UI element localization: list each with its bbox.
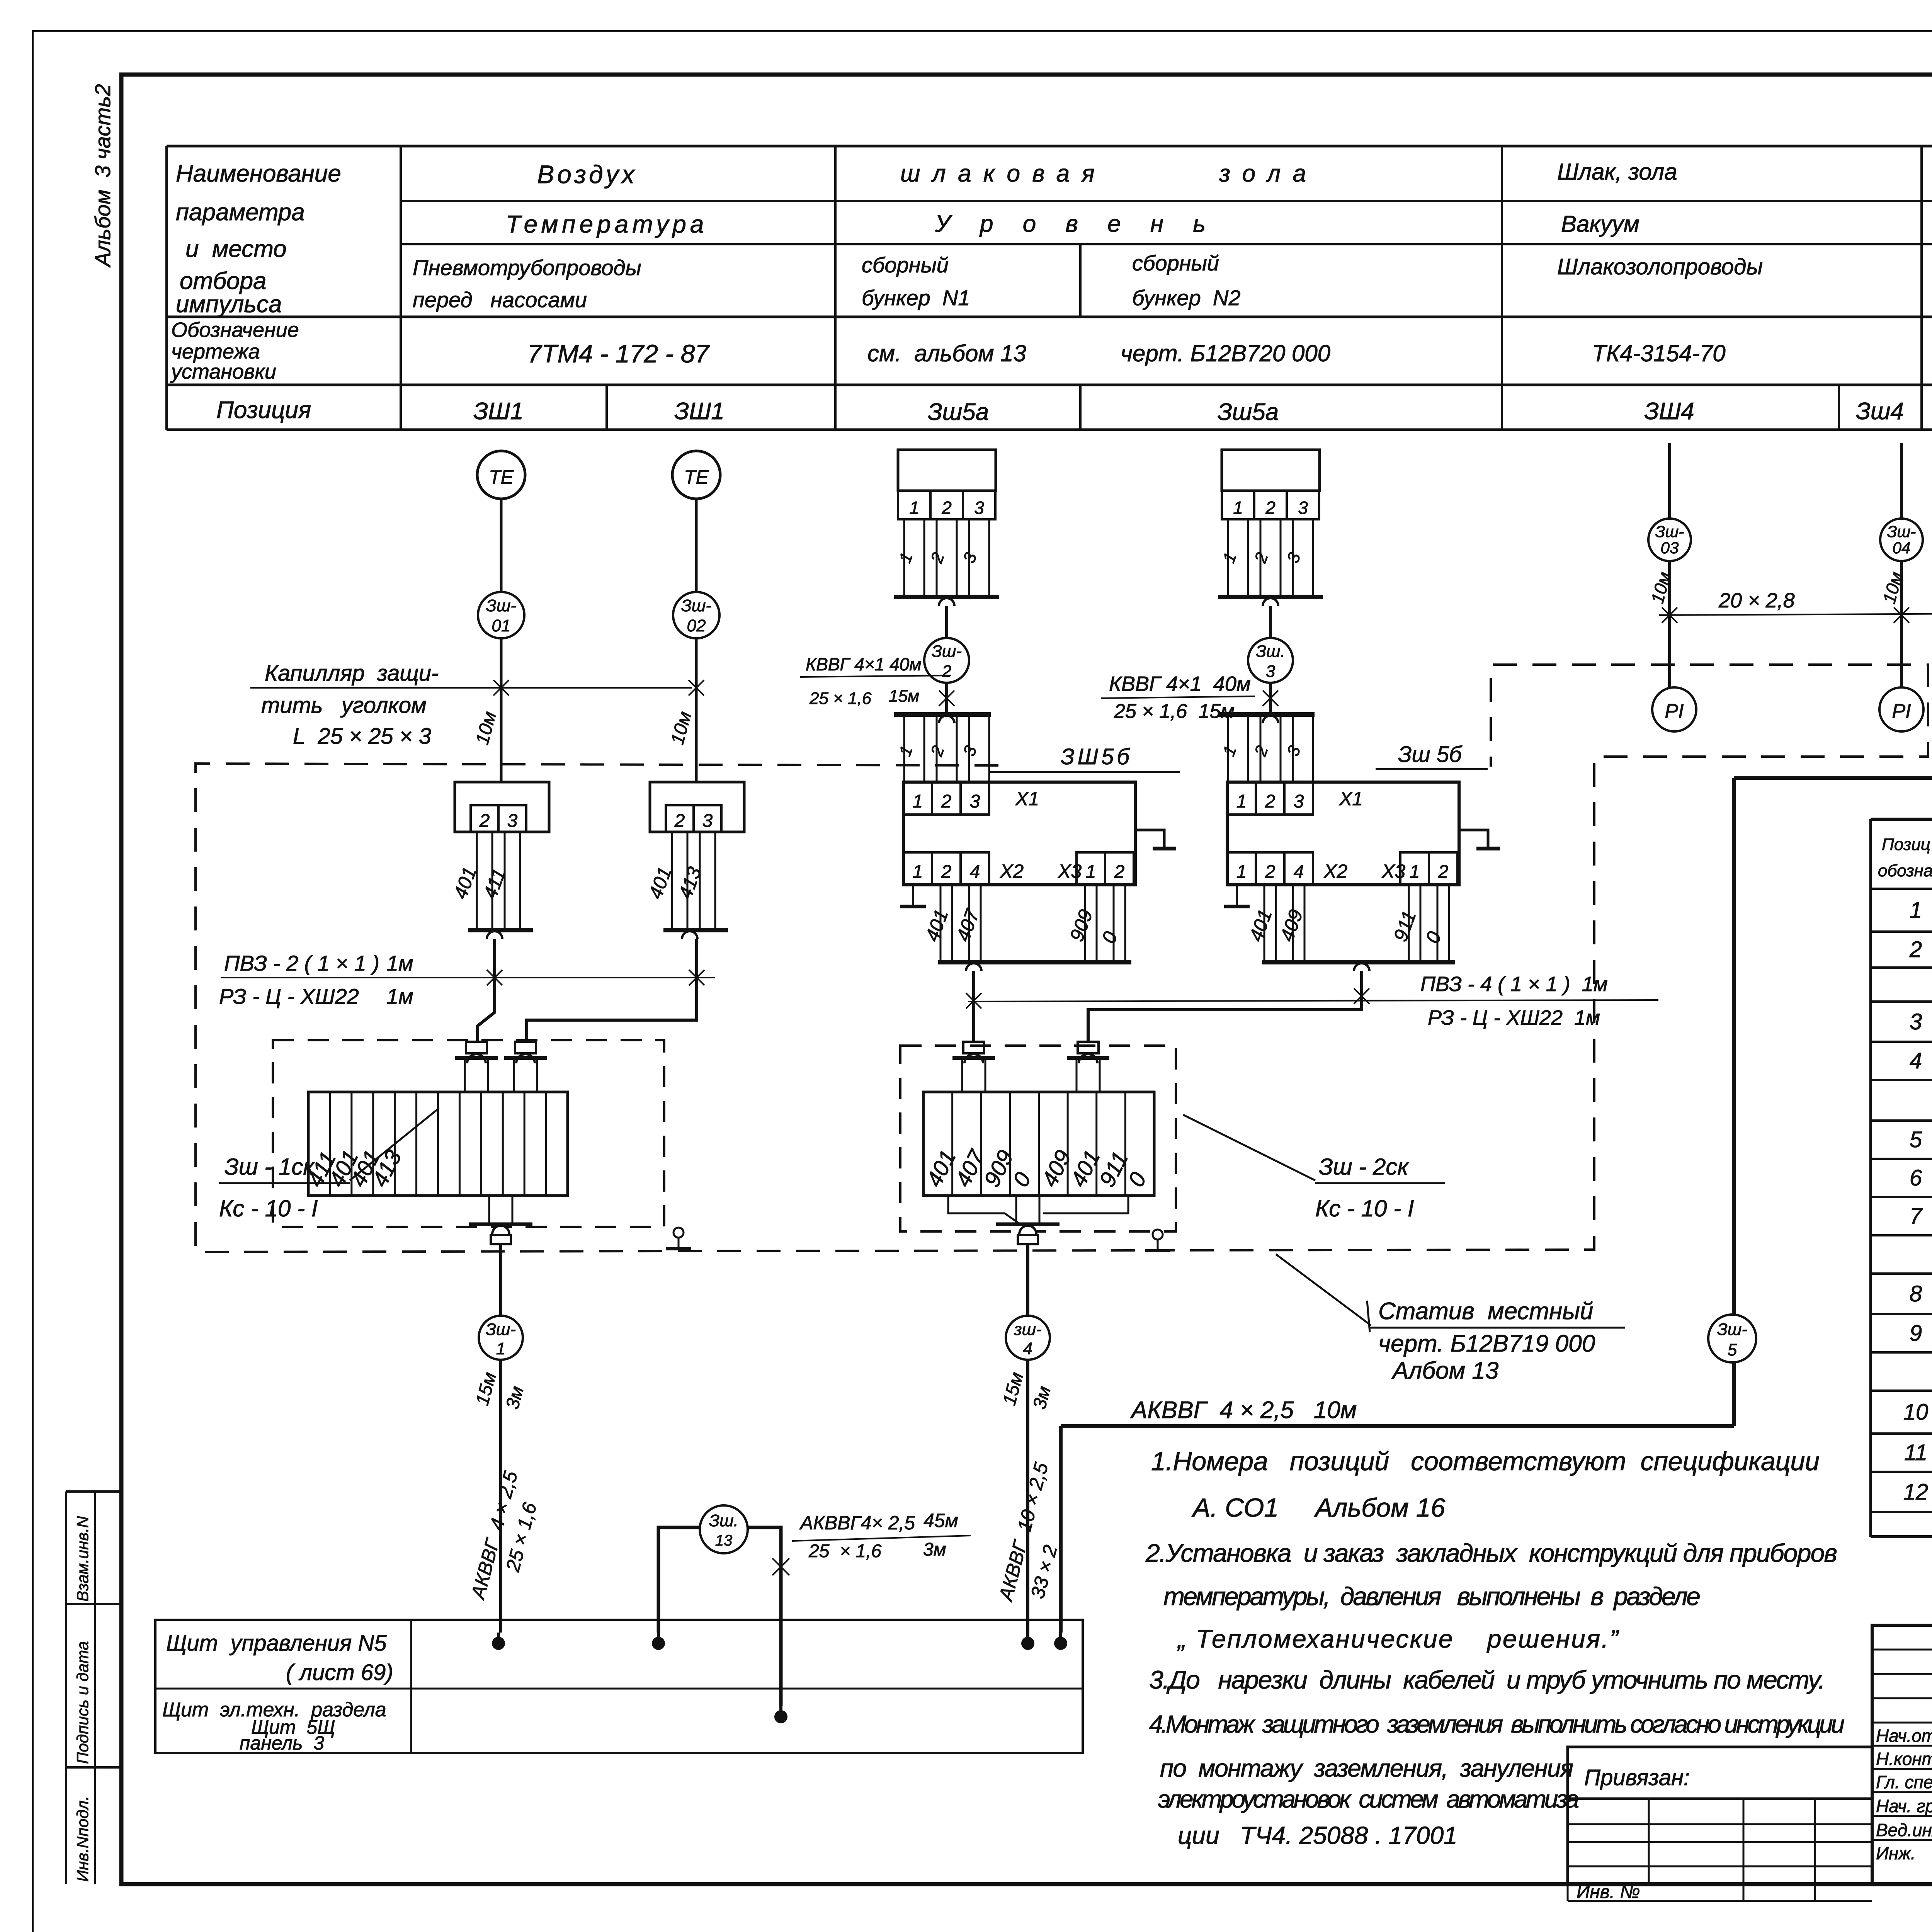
bell upper xyxy=(1263,598,1278,606)
dashed boundary of local stand xyxy=(196,665,1928,1252)
wire left X1 to ZSh-2sk stub xyxy=(972,971,975,1042)
svg-text:Взам.инв.N: Взам.инв.N xyxy=(73,1516,92,1602)
svg-text:2: 2 xyxy=(1438,862,1449,882)
ground symbol of ZSh-2sk xyxy=(1153,1230,1163,1240)
leader ZSh-1sk xyxy=(350,1108,439,1180)
svg-text:9: 9 xyxy=(1910,1321,1922,1346)
svg-text:L 25 × 25 × 3: L 25 × 25 × 3 xyxy=(293,724,431,749)
bottom bell xyxy=(492,1226,509,1234)
line to PI xyxy=(1900,561,1903,688)
svg-text:3: 3 xyxy=(702,811,713,831)
bell lower xyxy=(1263,716,1278,723)
svg-text:ЗШ1: ЗШ1 xyxy=(674,398,724,425)
ground symbol right of X1 xyxy=(1135,830,1164,847)
wire AKVVG down to panel xyxy=(1059,1426,1063,1633)
svg-text:Наименование: Наименование xyxy=(176,160,341,187)
svg-text:Зш 5б: Зш 5б xyxy=(1398,742,1463,767)
svg-text:Зш-: Зш- xyxy=(1717,1320,1747,1339)
svg-text:5: 5 xyxy=(1910,1127,1922,1152)
wire from device to panel partition xyxy=(1734,561,1932,778)
svg-text:температуры, давления выпол: температуры, давления выполнены в раздел… xyxy=(1163,1582,1701,1611)
svg-text:и место: и место xyxy=(185,236,287,262)
svg-text:чертежа: чертежа xyxy=(171,340,260,363)
svg-text:25 × 1,6: 25 × 1,6 xyxy=(808,1541,881,1561)
wire AKVVG horizontal xyxy=(1061,1424,1734,1428)
cable marker circle xyxy=(1880,519,1923,561)
svg-text:7: 7 xyxy=(1910,1204,1923,1229)
svg-text:Зш-: Зш- xyxy=(1887,522,1916,541)
cable gland bolt xyxy=(1078,1042,1099,1053)
svg-text:02: 02 xyxy=(687,616,706,635)
svg-text:Зш-: Зш- xyxy=(681,596,711,615)
ground symbol right of X1 xyxy=(1459,830,1488,847)
svg-text:4: 4 xyxy=(1023,1339,1032,1358)
svg-text:Температура: Температура xyxy=(506,210,708,238)
svg-text:7ТМ4 - 172 - 87: 7ТМ4 - 172 - 87 xyxy=(527,339,710,368)
wire above PI1 xyxy=(1673,687,1675,688)
svg-text:Зш - 1ск: Зш - 1ск xyxy=(224,1154,315,1180)
svg-text:2: 2 xyxy=(1114,862,1125,882)
cable marker ZSh-13 xyxy=(700,1505,748,1553)
svg-text:Зш.: Зш. xyxy=(1256,642,1285,661)
svg-text:1: 1 xyxy=(496,1339,505,1358)
svg-text:Шлакозолопроводы: Шлакозолопроводы xyxy=(1557,254,1763,279)
svg-text:1: 1 xyxy=(1086,862,1096,882)
svg-text:3: 3 xyxy=(1910,1009,1922,1034)
svg-text:ЗШ1: ЗШ1 xyxy=(473,398,524,425)
ground stub cell1 xyxy=(1236,885,1238,905)
cable marker circle xyxy=(924,638,969,683)
svg-text:бункер N2: бункер N2 xyxy=(1132,286,1241,310)
svg-text:Х1: Х1 xyxy=(1339,788,1363,810)
wire pair from strip xyxy=(1015,1196,1017,1224)
connection dot AKVVG main xyxy=(1054,1637,1067,1650)
wire below marker xyxy=(1269,683,1272,714)
X1 top cells 1 2 3 xyxy=(1227,782,1256,815)
svg-text:АКВВГ 4 × 2,5 10м: АКВВГ 4 × 2,5 10м xyxy=(1130,1397,1357,1423)
terminal box xyxy=(650,782,744,832)
svg-text:сборный: сборный xyxy=(862,253,949,277)
svg-text:1м: 1м xyxy=(386,951,413,975)
svg-text:Зш - 2ск: Зш - 2ск xyxy=(1319,1154,1409,1180)
svg-text:Х2: Х2 xyxy=(1000,861,1024,882)
svg-text:12: 12 xyxy=(1903,1480,1929,1505)
wires from terminals to bus xyxy=(476,832,478,930)
svg-text:2: 2 xyxy=(1909,937,1922,962)
svg-text:3: 3 xyxy=(1266,662,1276,681)
title block signature table xyxy=(1872,1625,1932,1884)
svg-text:15м: 15м xyxy=(889,687,919,706)
svg-text:8: 8 xyxy=(1910,1281,1922,1306)
crossing mark on cable note xyxy=(939,690,954,706)
svg-text:Зш4: Зш4 xyxy=(1856,398,1904,425)
impulse line top xyxy=(1668,443,1671,520)
svg-text:1: 1 xyxy=(913,862,923,882)
svg-text:3: 3 xyxy=(970,791,980,812)
gland bar xyxy=(1067,1056,1109,1060)
X1 top cells 1 2 3 xyxy=(903,782,932,815)
svg-text:2: 2 xyxy=(941,498,952,518)
impulse line top xyxy=(1900,443,1903,520)
inv no row xyxy=(1567,1884,1569,1901)
svg-text:03: 03 xyxy=(1661,539,1679,557)
ground symbol of ZSh-1sk xyxy=(673,1228,684,1238)
svg-text:1: 1 xyxy=(909,498,919,518)
svg-text:отбора: отбора xyxy=(180,268,266,294)
line to PI xyxy=(1668,561,1671,688)
svg-text:обознач.: обознач. xyxy=(1878,861,1932,880)
cable note line PV3-2 xyxy=(221,977,715,978)
bus bar upper xyxy=(1218,595,1323,599)
svg-text:бункер N1: бункер N1 xyxy=(862,286,970,310)
crossing mark PV3-2 line wire1 xyxy=(487,970,502,985)
svg-text:ЗШ5б: ЗШ5б xyxy=(1061,744,1133,769)
crossing mark PV3-4 wire2 xyxy=(1354,988,1369,1004)
svg-text:Зш5а: Зш5а xyxy=(928,399,989,425)
svg-text:Позиц .: Позиц . xyxy=(1882,835,1932,854)
svg-text:ПВЗ - 2 ( 1 × 1 ): ПВЗ - 2 ( 1 × 1 ) xyxy=(224,951,379,975)
svg-text:3: 3 xyxy=(1294,791,1304,812)
wire to cable marker xyxy=(945,606,948,638)
wire ZSh-1 to panel xyxy=(499,1360,502,1633)
svg-text:Вед.инж: Вед.инж xyxy=(1876,1820,1932,1840)
connection dot ZSh-4 xyxy=(1021,1637,1034,1650)
bell upper xyxy=(939,598,954,606)
svg-text:Х3: Х3 xyxy=(1058,861,1082,882)
wire pair into strip xyxy=(961,1058,963,1092)
svg-text:1: 1 xyxy=(913,791,923,812)
wire ZSh-02 down to terminal box xyxy=(695,638,698,782)
svg-text:5: 5 xyxy=(1728,1340,1737,1359)
wire from box1 to junction box KS-10-I stub1 xyxy=(478,939,495,1042)
svg-text:„ Тепломеханические решения: „ Тепломеханические решения.” xyxy=(1177,1624,1619,1653)
manometer PI 1 xyxy=(1652,687,1696,731)
svg-text:1: 1 xyxy=(1910,898,1922,923)
connector bell xyxy=(682,931,697,939)
crossing mark 20x2.8 xyxy=(1662,607,1677,623)
upper connection box xyxy=(1222,450,1320,491)
cable marker circle xyxy=(1248,638,1293,683)
wire TE1 to ZSh-01 xyxy=(500,499,503,592)
svg-text:тить уголком: тить уголком xyxy=(261,693,427,718)
svg-text:1: 1 xyxy=(1236,862,1247,882)
svg-text:2: 2 xyxy=(941,862,952,882)
wire from box2 to junction box KS-10-I stub2 xyxy=(527,939,697,1042)
wires cells 2 4 to bus xyxy=(940,885,942,962)
connection dot ZSh-13 left xyxy=(652,1637,665,1650)
svg-text:электроустановок систем авто: электроустановок систем автоматиза xyxy=(1158,1785,1579,1813)
svg-text:Подпись и дата: Подпись и дата xyxy=(73,1641,92,1764)
cable marker ZSh-02 xyxy=(673,592,719,638)
gland bell xyxy=(964,1054,983,1063)
svg-text:Шлак, зола: Шлак, зола xyxy=(1557,159,1677,185)
wire pair into strip xyxy=(513,1058,515,1092)
svg-text:см. альбом 13: см. альбом 13 xyxy=(867,340,1026,366)
svg-text:Привязан:: Привязан: xyxy=(1584,1765,1690,1790)
leader ZSh-2sk xyxy=(1183,1115,1315,1180)
cable note line KVVG left xyxy=(800,675,951,677)
wire pair from strip xyxy=(488,1196,490,1224)
crossing mark PV3-4 wire1 xyxy=(966,993,981,1009)
wires into X1 xyxy=(1227,714,1229,782)
svg-text:2: 2 xyxy=(942,662,951,681)
svg-text:Инв.Nподл.: Инв.Nподл. xyxy=(73,1796,92,1882)
manometer PI 2 xyxy=(1879,687,1923,731)
cable marker ZSh-1 xyxy=(479,1316,523,1360)
wire right X1 to ZSh-2sk stub xyxy=(1088,971,1362,1042)
svg-text:Зш5а: Зш5а xyxy=(1218,399,1279,425)
dashed box around ZSh-1sk xyxy=(273,1040,664,1227)
svg-text:Х1: Х1 xyxy=(1015,788,1039,810)
parts table frame xyxy=(1871,818,1932,821)
wire below marker xyxy=(945,683,948,714)
svg-text:3м: 3м xyxy=(923,1539,946,1560)
svg-text:2: 2 xyxy=(941,791,952,812)
net label line ZSh5b left xyxy=(989,771,1180,773)
control panel box xyxy=(155,1620,1083,1753)
cable marker ZSh-01 xyxy=(478,592,524,638)
bell under left X1 xyxy=(966,963,981,971)
svg-text:3: 3 xyxy=(507,811,518,831)
instrument TE circle 2 xyxy=(672,451,720,499)
terminal block X1 body xyxy=(1227,782,1459,885)
svg-text:Нач.отд: Нач.отд xyxy=(1876,1726,1932,1746)
bus bar lower xyxy=(894,712,991,717)
svg-text:установки: установки xyxy=(170,360,276,383)
crossing mark on capillary note line 2 xyxy=(689,680,704,696)
bottom bolt xyxy=(1018,1235,1038,1244)
svg-text:сборный: сборный xyxy=(1132,251,1219,275)
svg-text:4: 4 xyxy=(970,862,980,882)
sidebar stamp boxes xyxy=(65,1492,67,1884)
cable gland bolt xyxy=(515,1042,536,1053)
wire ZSh-4 branch xyxy=(1026,1244,1029,1316)
svg-text:Х3: Х3 xyxy=(1381,861,1405,882)
svg-text:25 × 1,6: 25 × 1,6 xyxy=(809,689,872,708)
svg-text:Гл. спец: Гл. спец xyxy=(1876,1772,1932,1792)
svg-text:РI: РI xyxy=(1665,700,1684,723)
bottom gland bar xyxy=(469,1223,532,1226)
X3 cells 1 2 xyxy=(1400,852,1429,885)
svg-text:2.Установка и заказ закладны: 2.Установка и заказ закладных конструкци… xyxy=(1145,1539,1837,1567)
svg-text:1: 1 xyxy=(1236,791,1247,812)
wires to bus xyxy=(1227,519,1229,597)
gland bell xyxy=(516,1054,535,1063)
leader stativ xyxy=(1367,1301,1370,1332)
svg-text:Зш-: Зш- xyxy=(1655,522,1684,541)
svg-text:РI: РI xyxy=(1892,700,1911,723)
svg-text:Щит управления N5: Щит управления N5 xyxy=(166,1631,387,1656)
svg-text:Нач. гр.: Нач. гр. xyxy=(1876,1796,1932,1816)
crossing mark on ZSh-13 branch xyxy=(772,1558,789,1575)
X3 cells 1 2 xyxy=(1077,852,1105,885)
internal wiring under strip xyxy=(948,1196,1020,1224)
bus bar under X1 xyxy=(1262,960,1455,964)
svg-text:АКВВГ4× 2,5: АКВВГ4× 2,5 xyxy=(799,1512,915,1534)
svg-text:20 × 2,8: 20 × 2,8 xyxy=(1718,589,1795,612)
wires from terminals to bus xyxy=(671,832,673,930)
svg-text:Зш-: Зш- xyxy=(486,596,516,615)
svg-text:РЗ - Ц - ХШ22 1м: РЗ - Ц - ХШ22 1м xyxy=(1428,1006,1600,1029)
svg-text:Инв. №: Инв. № xyxy=(1577,1882,1640,1902)
svg-text:ТЕ: ТЕ xyxy=(684,466,709,488)
X2 bottom cells 1 2 4 xyxy=(903,852,932,885)
cable marker circle xyxy=(1648,519,1691,561)
svg-text:Зш-: Зш- xyxy=(486,1320,516,1339)
crossing mark on capillary note line xyxy=(493,680,509,696)
svg-text:Капилляр защи-: Капилляр защи- xyxy=(265,661,439,686)
svg-text:Воздух: Воздух xyxy=(537,160,638,189)
svg-text:Албом 13: Албом 13 xyxy=(1391,1357,1498,1384)
svg-text:Вакуум: Вакуум xyxy=(1561,211,1639,237)
svg-text:по монтажу заземления, зану: по монтажу заземления, зануления xyxy=(1160,1754,1573,1782)
svg-text:ТК4-3154-70: ТК4-3154-70 xyxy=(1592,340,1726,366)
wire below ZSh-5 xyxy=(1732,1362,1736,1426)
gland bell xyxy=(1079,1054,1097,1063)
svg-text:РЗ - Ц - ХШ22: РЗ - Ц - ХШ22 xyxy=(219,984,359,1009)
cable note line PV3-4 xyxy=(968,1000,1658,1002)
wire ZSh-1 branch xyxy=(499,1244,502,1316)
svg-text:черт. Б12В720 000: черт. Б12В720 000 xyxy=(1121,340,1330,366)
cable note line KVVG right xyxy=(1101,696,1255,698)
bus bar upper xyxy=(894,595,999,599)
svg-text:КВВГ 4×1 40м: КВВГ 4×1 40м xyxy=(806,654,922,674)
svg-text:3: 3 xyxy=(974,498,984,518)
svg-text:ции ТЧ4. 25088 . 17001: ции ТЧ4. 25088 . 17001 xyxy=(1178,1821,1458,1849)
svg-text:Кс - 10 - I: Кс - 10 - I xyxy=(219,1196,318,1221)
svg-text:Альбом 3 часть2: Альбом 3 часть2 xyxy=(90,84,115,268)
svg-text:2: 2 xyxy=(479,811,490,831)
cable gland bolt xyxy=(963,1042,984,1053)
svg-text:Обозначение: Обозначение xyxy=(171,318,299,342)
crossing mark on cable note xyxy=(1263,690,1278,706)
svg-text:2: 2 xyxy=(1265,498,1276,518)
svg-text:6: 6 xyxy=(1910,1165,1922,1190)
bell lower xyxy=(939,716,954,723)
bus bar xyxy=(663,928,728,932)
svg-text:04: 04 xyxy=(1893,539,1911,557)
svg-text:Кс - 10 - I: Кс - 10 - I xyxy=(1315,1196,1414,1221)
upper connection box xyxy=(898,450,996,491)
svg-text:4.Монтаж защитного заземлени: 4.Монтаж защитного заземления выполнить … xyxy=(1149,1710,1845,1738)
cable marker ZSh-5 xyxy=(1708,1315,1756,1362)
svg-text:3.До нарезки длины кабелей: 3.До нарезки длины кабелей и труб уточни… xyxy=(1149,1665,1825,1694)
wire ZSh-4 to panel xyxy=(1026,1360,1029,1633)
net label line ZSh5b right xyxy=(1376,768,1488,770)
svg-text:Пневмотрубопроводы: Пневмотрубопроводы xyxy=(413,255,641,280)
wire TE2 to ZSh-02 xyxy=(695,499,698,592)
X2 bottom cells 1 2 4 xyxy=(1227,852,1256,885)
cable marker ZSh-4 xyxy=(1006,1316,1050,1360)
wire ZSh-01 down to terminal box xyxy=(500,638,503,782)
bottom bolt xyxy=(491,1235,511,1244)
svg-text:Позиция: Позиция xyxy=(216,397,311,423)
connector bell xyxy=(487,931,502,939)
crossing mark PV3-2 line wire2 xyxy=(689,970,704,985)
svg-text:перед насосами: перед насосами xyxy=(413,287,587,312)
capillary note line xyxy=(250,687,692,689)
header table grid xyxy=(165,146,168,430)
cable gland bolt xyxy=(466,1042,487,1053)
crossing mark 20x2.8 xyxy=(1894,607,1909,623)
svg-text:КВВГ 4×1 40м: КВВГ 4×1 40м xyxy=(1109,672,1251,696)
wire pair into strip xyxy=(464,1058,466,1092)
gland bar xyxy=(952,1056,995,1060)
wires into X1 xyxy=(903,714,905,782)
wires to bus xyxy=(903,519,905,597)
svg-text:Зш-: Зш- xyxy=(932,642,962,661)
privyazan block xyxy=(1568,1747,1872,1884)
wire above PI2 xyxy=(1900,561,1903,687)
svg-text:параметра: параметра xyxy=(176,199,305,226)
bottom bell xyxy=(1019,1226,1036,1234)
svg-text:ПВЗ - 4 ( 1 × 1 ) 1м: ПВЗ - 4 ( 1 × 1 ) 1м xyxy=(1420,973,1608,996)
terminal strip KS-10-I xyxy=(923,1092,1154,1196)
bus bar under X1 xyxy=(938,960,1131,964)
svg-text:2: 2 xyxy=(1265,791,1276,812)
gland bar xyxy=(455,1056,498,1060)
ground stub cell1 xyxy=(912,885,914,905)
wires cells 2 4 to bus xyxy=(1264,885,1265,962)
connection dot wire1 xyxy=(492,1637,505,1650)
svg-text:зш-: зш- xyxy=(1014,1320,1042,1339)
gland bell xyxy=(467,1054,486,1063)
terminal box xyxy=(455,782,549,832)
wire ZSh-13 loop xyxy=(658,1527,781,1706)
dashed box around ZSh-2sk xyxy=(900,1046,1176,1231)
svg-text:3: 3 xyxy=(1298,498,1308,518)
wire partition down to ZSh-5 xyxy=(1732,778,1736,1315)
bell under right X1 xyxy=(1354,963,1369,971)
bottom gland bar xyxy=(996,1223,1060,1226)
svg-text:( лист 69): ( лист 69) xyxy=(286,1660,393,1685)
svg-text:10: 10 xyxy=(1903,1400,1929,1425)
svg-text:Н.контр.: Н.контр. xyxy=(1876,1749,1932,1769)
gland bar xyxy=(504,1056,547,1060)
connection dot ZSh-13 right row2 xyxy=(774,1710,787,1723)
svg-text:панель 3: панель 3 xyxy=(240,1732,324,1754)
svg-text:импульса: импульса xyxy=(176,291,282,318)
instrument TE circle 1 xyxy=(477,451,525,499)
bus bar xyxy=(468,928,533,932)
svg-text:25 × 1,6 15м: 25 × 1,6 15м xyxy=(1114,700,1235,723)
bus bar lower xyxy=(1218,712,1315,717)
svg-text:1м: 1м xyxy=(386,984,413,1009)
svg-text:2: 2 xyxy=(674,811,685,831)
wire to cable marker xyxy=(1269,606,1272,638)
svg-text:01: 01 xyxy=(492,616,511,635)
svg-text:4: 4 xyxy=(1294,862,1304,882)
terminal strip KS-10-I xyxy=(308,1092,568,1196)
svg-text:2: 2 xyxy=(1265,862,1276,882)
svg-text:ЗШ4: ЗШ4 xyxy=(1644,398,1694,425)
svg-text:ТЕ: ТЕ xyxy=(489,466,514,488)
svg-text:А. СО1 Альбом 16: А. СО1 Альбом 16 xyxy=(1191,1493,1446,1522)
wires X3 to bus xyxy=(1408,885,1410,962)
wires X3 to bus xyxy=(1084,885,1086,962)
dimension line 20x2.8 xyxy=(1659,614,1932,615)
svg-text:11: 11 xyxy=(1904,1440,1927,1465)
svg-text:Х2: Х2 xyxy=(1323,861,1347,882)
svg-text:Зш.: Зш. xyxy=(709,1511,738,1530)
svg-text:45м: 45м xyxy=(923,1510,958,1531)
terminal block X1 body xyxy=(903,782,1135,885)
svg-text:13: 13 xyxy=(715,1532,733,1549)
wire pair into strip xyxy=(1076,1058,1078,1092)
svg-text:1: 1 xyxy=(1410,862,1420,882)
svg-text:Статив местный: Статив местный xyxy=(1378,1298,1593,1325)
svg-text:Инж.: Инж. xyxy=(1876,1843,1916,1863)
